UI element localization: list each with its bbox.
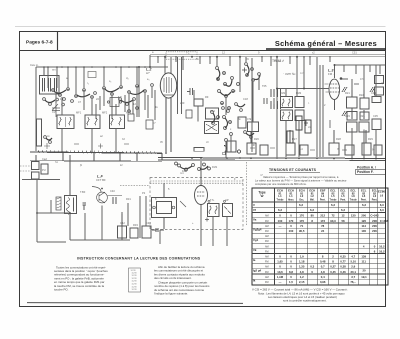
svg-text:MF1: MF1 [76,111,82,115]
junction blobs [36,56,342,214]
svg-text:des circuits où ils intéressen: des circuits où ils intéressent. [154,276,192,280]
svg-text:13,6: 13,6 [277,270,283,274]
capacitor group C osc [271,89,281,109]
small box on antenna rail [88,72,96,78]
svg-text:80: 80 [311,214,315,218]
svg-text:l’indique la figure suivante.: l’indique la figure suivante. [154,292,188,296]
svg-text:5,10: 5,10 [350,260,356,264]
svg-text:R22: R22 [359,93,364,97]
svg-text:120: 120 [361,219,366,223]
svg-text:C31: C31 [371,91,376,95]
svg-text:Pent.: Pent. [372,199,378,202]
svg-text:CFT BF: CFT BF [96,178,106,182]
svg-text:T.BF: T.BF [80,190,86,194]
wire top double rail right [150,54,386,56]
svg-text:MF2: MF2 [102,111,108,115]
svg-text:AM: AM [265,235,269,238]
RC network bottom middle [118,214,165,238]
svg-text:12: 12 [341,214,345,218]
svg-text:L2: L2 [311,194,315,198]
svg-text:C35: C35 [373,114,378,118]
svg-text:EZ80: EZ80 [378,190,386,194]
svg-text:e₅: e₅ [147,78,150,81]
svg-text:FM: FM [265,230,268,233]
svg-text:6,3: 6,3 [278,208,282,212]
svg-text:6,35: 6,35 [340,255,346,259]
svg-text:AM: AM [265,266,269,269]
svg-text:T.S.: T.S. [210,198,215,202]
svg-text:6,3: 6,3 [331,203,335,207]
svg-text:0,45: 0,45 [330,270,336,274]
svg-text:20: 20 [362,269,366,273]
wire grid AV to L3 [277,57,386,158]
output transformer T1 [208,204,220,217]
svg-text:FM: FM [265,271,268,274]
switch lever above bus right [194,146,241,155]
dotted separator line right of commutator [246,162,248,225]
svg-text:L6: L6 [380,194,384,198]
svg-text:Valeurs moyennes — Tensions: Valeurs moyennes — Tensions prises par r… [263,175,339,179]
wire vertical x252 [251,58,253,152]
dashes near L3 left [325,84,330,92]
IF can FM1 [281,97,293,121]
junction dots on rails [43,56,377,160]
dotted box TC top [166,52,197,59]
svg-text:170: 170 [299,214,304,218]
resistor network right upper [347,76,384,133]
wire MF row links [62,104,116,152]
svg-text:90,3: 90,3 [330,219,336,223]
svg-text:CV: CV [52,110,56,114]
svg-text:172: 172 [320,219,325,223]
wire vertical x320 [319,65,321,157]
resistor R31 vertical [305,120,311,133]
svg-text:111: 111 [362,260,367,264]
svg-text:47n: 47n [360,78,365,81]
svg-text:8,8: 8,8 [289,270,293,274]
svg-text:1,65: 1,65 [277,260,283,264]
AM FM sub labels [265,215,269,284]
resistor box x238 [238,117,246,128]
svg-text:PU: PU [42,168,46,172]
svg-text:1 2 3: 1 2 3 [132,289,138,291]
svg-text:206: 206 [372,229,377,233]
svg-text:170: 170 [299,219,304,223]
IF transformer MF1 [57,115,74,129]
svg-text:touche PO.: touche PO. [54,288,69,292]
svg-text:72: 72 [331,214,335,218]
svg-text:AM: AM [265,245,269,248]
note nota block [258,292,345,303]
svg-text:170: 170 [289,219,294,223]
svg-text:10,2: 10,2 [379,244,385,248]
svg-text:1 2 3: 1 2 3 [132,286,138,288]
box bottom row x227 [227,141,236,152]
bus junction dots [61,151,318,159]
wire pair right of tube L2 [178,57,182,114]
header band separator line [20,50,386,52]
svg-text:212: 212 [320,214,325,218]
svg-text:100: 100 [289,229,294,233]
svg-text:INSTRUCTION CONCERNANT LA LECT: INSTRUCTION CONCERNANT LA LECTURE DES CO… [77,257,201,261]
svg-text:2,9: 2,9 [351,265,355,269]
IF transformer MF2 [85,115,100,129]
svg-text:208: 208 [372,219,377,223]
svg-text:Pent.: Pent. [340,199,346,202]
IF can FM2 [295,97,304,121]
svg-text:Hexo.: Hexo. [288,200,295,202]
svg-text:6,3: 6,3 [380,208,384,212]
svg-text:0,38: 0,38 [340,265,346,269]
commutator bus dotted lines [120,181,243,186]
resistor block R osc [194,99,259,134]
svg-text:C18: C18 [243,97,248,101]
svg-text:R9: R9 [205,95,209,99]
svg-text:Pent.: Pent. [320,199,326,202]
table legend text [255,175,347,186]
svg-text:C43: C43 [146,221,151,225]
svg-text:FM ..: FM .. [328,72,335,76]
svg-text:FM: FM [265,220,268,223]
svg-text:TR 42 +: TR 42 + [274,59,284,63]
wire vertical x323 [322,65,324,157]
misc small component marks [128,68,359,130]
svg-text:0,46: 0,46 [340,270,346,274]
table values [277,203,389,284]
svg-text:20,1: 20,1 [350,270,356,274]
left AM block boxes [32,155,49,179]
instruction key mini table [129,268,141,292]
svg-text:r12: r12 [232,90,236,93]
plus mark near T1 [205,218,209,222]
transistor driver stage circle [92,187,122,204]
svg-text:R33: R33 [133,223,138,227]
svg-text:C51: C51 [352,51,357,55]
svg-text:AM: AM [265,276,269,279]
svg-text:6,3: 6,3 [299,203,303,207]
svg-text:La valeur aux bornes du P-M —: La valeur aux bornes du P-M — Sans signa… [255,178,347,182]
svg-text:Cav m.: Cav m. [30,63,39,67]
svg-text:Triode: Triode [277,200,285,202]
wire vertical x139 antenna [138,67,140,117]
svg-text:AM: AM [265,215,269,218]
main HT bus hatched left segment [30,150,162,161]
resistor R30 vertical [296,116,302,130]
speaker hatched block [56,197,61,210]
svg-text:Schéma général – Mesures: Schéma général – Mesures [275,39,377,48]
svg-text:0,7: 0,7 [321,265,325,269]
svg-text:100: 100 [278,219,283,223]
contact circles lower-left [44,136,52,144]
table header cells [258,189,385,202]
relay box nested rectangles [152,183,187,229]
svg-text:Triode: Triode [350,200,358,202]
svg-text:6,3: 6,3 [380,203,384,207]
svg-text:R31: R31 [126,197,131,201]
svg-text:130: 130 [351,214,356,218]
svg-text:FM: FM [265,250,268,253]
svg-text:1,5: 1,5 [289,280,293,284]
svg-text:c₃: c₃ [109,80,111,83]
wire second top rail [150,56,386,58]
scattered component value labels [42,76,378,227]
wire HT top rail left [36,66,168,68]
svg-text:1,AM: 1,AM [277,275,283,279]
title underline [266,48,386,50]
svg-text:Vg1: Vg1 [253,238,259,242]
svg-text:Position A. /: Position A. / [357,165,376,169]
wire links switches to MF cans [48,57,277,158]
svg-text:114: 114 [361,224,366,228]
wire vertical x165 [164,57,166,74]
variable capacitor CV1 [52,103,60,117]
svg-text:TENSIONS ET COURANTS: TENSIONS ET COURANTS [269,168,317,172]
resistor R32 vertical [287,131,293,143]
svg-text:0,96: 0,96 [320,280,326,284]
svg-text:FM1: FM1 [212,165,218,169]
svg-text:FM1: FM1 [280,91,286,95]
svg-text:0,48: 0,48 [320,260,326,264]
svg-text:Cad: Cad [42,157,47,161]
svg-text:1 2 3: 1 2 3 [132,275,138,277]
capacitor marks right [342,87,375,116]
svg-text:24: 24 [321,229,325,233]
contact specks upper-left cluster [52,72,253,122]
svg-text:C=242: C=242 [370,214,379,218]
svg-text:C=308: C=308 [380,219,389,223]
svg-text:47k: 47k [247,117,252,121]
svg-text:L3: L3 [373,194,377,198]
svg-text:a₁: a₁ [66,77,68,80]
svg-text:1 2 3: 1 2 3 [132,281,138,283]
svg-text:C33: C33 [345,114,350,118]
svg-text:Position F.: Position F. [357,170,374,174]
svg-text:R29: R29 [368,137,373,141]
svg-text:6,3: 6,3 [341,208,345,212]
tube L5 EL84 triode section [195,161,208,216]
tiny marks row above bus [44,143,347,150]
transformer BF box with coil [65,155,77,240]
svg-text:P2: P2 [142,191,146,195]
svg-text:L5: L5 [341,194,345,198]
commutator dashed box [150,178,243,230]
svg-text:· over №: · over № [283,72,296,76]
svg-text:1,35: 1,35 [299,265,305,269]
svg-text:—: — [279,224,282,228]
svg-text:Triode: Triode [330,200,338,202]
main HT bus right segment [158,153,386,160]
svg-text:L5: L5 [331,194,335,198]
svg-text:6,3: 6,3 [310,208,314,212]
svg-text:R21: R21 [345,91,350,95]
svg-text:71: 71 [300,224,304,228]
wire left column [37,179,70,242]
svg-text:76,--: 76,-- [350,280,356,284]
svg-text:r₂: r₂ [87,81,89,85]
instruction right paragraph [154,265,210,296]
svg-text:L2: L2 [300,194,304,198]
relay box small with side pins [107,98,121,107]
svg-text:4,7: 4,7 [351,255,355,259]
wire under left AM boxes [22,179,60,181]
svg-text:C42: C42 [120,221,125,225]
svg-text:4,8: 4,8 [300,270,304,274]
svg-text:sont à contrôler systématiquem: sont à contrôler systématiquement. [283,299,327,303]
svg-text:FM: FM [265,240,268,243]
svg-text:m4: m4 [180,172,184,175]
svg-text:100: 100 [361,229,366,233]
pin circles on T1 T2 [208,200,210,202]
svg-text:2,15: 2,15 [299,280,305,284]
svg-text:L6: L6 [352,194,356,198]
svg-text:L1: L1 [289,194,293,198]
wire vertical riser x150 [149,55,151,67]
svg-text:Pages 6-7-8: Pages 6-7-8 [26,39,53,45]
svg-text:Ig2 g4: Ig2 g4 [253,268,262,272]
labels above top rail [152,51,357,76]
svg-text:L6: L6 [362,194,366,198]
svg-text:90,5: 90,5 [299,229,305,233]
switch bank S4 below bus [175,162,211,171]
wire vertical x277 [276,57,278,157]
extra tiny labels speckle [47,78,384,177]
svg-text:Vf: Vf [253,208,256,212]
svg-text:10,2: 10,2 [379,249,385,253]
capacitor C BF [83,197,117,210]
svg-text:Va: Va [253,218,257,222]
svg-text:19,1: 19,1 [361,275,367,279]
switch bank S2 oscillator contacts [119,98,139,113]
bottom chassis rail [27,302,243,305]
svg-text:FM2: FM2 [296,91,302,95]
svg-text:0,4: 0,4 [321,275,325,279]
dashed leads to frame left [20,166,32,171]
extra contact circles mid column [211,103,254,139]
svg-text:220: 220 [180,101,185,105]
svg-text:58: 58 [341,219,345,223]
verticals [274,188,276,285]
svg-text:6.8: 6.8 [118,95,122,99]
svg-text:4,8: 4,8 [321,270,325,274]
svg-text:139: 139 [361,255,366,259]
switch contacts below L1 [43,98,65,106]
svg-text:—: — [279,280,282,284]
IF transformer MF3 [110,115,125,129]
svg-text:AM: AM [265,225,269,228]
svg-text:1,2: 1,2 [300,275,304,279]
svg-text:1 2 3: 1 2 3 [132,284,138,286]
svg-text:Vg2g4: Vg2g4 [253,228,262,232]
svg-text:R26: R26 [254,137,259,141]
svg-text:1,9: 1,9 [300,255,304,259]
svg-text:L4: L4 [321,194,325,198]
svg-text:FM: FM [265,261,268,264]
pages box divider [57,32,59,51]
svg-text:W: W [261,194,264,198]
svg-text:Vk: Vk [253,248,257,252]
svg-text:R24: R24 [360,114,365,118]
svg-text:V: V [253,203,255,207]
tube L2 ECH81 [160,73,176,152]
svg-text:206: 206 [372,224,377,228]
instruction left paragraph [54,265,108,291]
svg-text:FM: FM [265,281,268,284]
wire drops bottom section [70,196,227,246]
filter block T2 [223,204,233,217]
svg-text:L1: L1 [278,194,282,198]
svg-text:Pent.: Pent. [361,199,367,202]
svg-text:ant: ant [52,68,56,72]
svg-text:R28: R28 [336,137,341,141]
wire vertical x171 [170,57,172,74]
svg-text:1 2 3: 1 2 3 [132,272,138,274]
wire stubs from top rail [96,57,380,120]
bottom rail components right of commutator [247,130,382,155]
svg-text:0,27: 0,27 [330,265,336,269]
svg-text:comptées par une résistance de: comptées par une résistance de 800 ohms. [255,182,307,186]
svg-text:t nº: t nº [300,71,304,75]
switch bank S5 FM contacts [245,63,261,82]
svg-text:d₄: d₄ [126,76,129,80]
svg-text:tm: tm [47,135,50,138]
svg-text:Osc.: Osc. [299,200,304,202]
svg-text:AM: AM [265,256,269,259]
svg-text:T05: T05 [262,84,267,88]
table grid [252,188,388,285]
horizontals [252,201,386,203]
switch bank S3 column contacts [216,67,240,142]
svg-text:200: 200 [361,214,366,218]
switch bank S1 PO-GO contacts [52,84,154,103]
svg-text:1 2 3: 1 2 3 [132,278,138,280]
tube L3 EABC80 [329,65,340,110]
electrolytic can tall box left [37,119,42,146]
svg-text:Mél.: Mél. [310,200,315,202]
wire vertical x317 [316,57,318,157]
svg-text:TC: TC [186,51,190,55]
wire left vertical drop [35,67,37,151]
svg-text:0,77: 0,77 [340,260,346,264]
svg-text:3,7: 3,7 [351,275,355,279]
svg-text:6,3: 6,3 [362,203,366,207]
svg-text:78: 78 [321,224,325,228]
svg-text:C40: C40 [110,189,115,193]
svg-text:1,18: 1,18 [299,260,305,264]
coil L1 antenna block [40,67,60,94]
table row labels [253,203,262,283]
svg-text:0,3: 0,3 [310,265,314,269]
